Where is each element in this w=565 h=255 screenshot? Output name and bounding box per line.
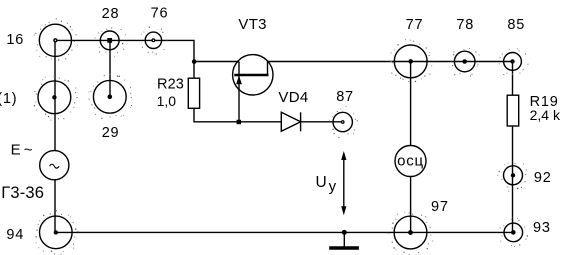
svg-text:77: 77 <box>406 17 424 33</box>
wire R19 through 92 to 93 <box>512 126 514 232</box>
resistor R19 <box>507 95 519 126</box>
svg-text:94: 94 <box>6 227 24 243</box>
wire top row from terminal 16 through 28 and 76 to corner <box>55 40 194 78</box>
svg-text:29: 29 <box>102 125 120 141</box>
terminal 78 <box>451 48 479 77</box>
wire 77 down to oscilloscope <box>410 62 412 146</box>
wire R23 bottom to bottom-left rail <box>194 108 282 122</box>
svg-text:(1): (1) <box>0 91 17 107</box>
svg-text:92: 92 <box>534 170 552 186</box>
svg-text:87: 87 <box>336 89 354 105</box>
svg-text:85: 85 <box>507 17 525 33</box>
svg-text:VT3: VT3 <box>238 16 266 33</box>
wire VT3 source vertical down to bottom-left rail <box>238 62 240 122</box>
terminal 92 <box>497 163 526 192</box>
terminal 97 <box>388 212 433 255</box>
transistor VT3 <box>233 55 273 95</box>
ground <box>329 232 359 248</box>
svg-text:76: 76 <box>151 6 169 22</box>
terminal 29 <box>89 74 132 119</box>
node B junction square at VT3 source and bottom rail <box>237 120 241 124</box>
svg-text:~: ~ <box>24 141 34 158</box>
svg-text:2,4 k: 2,4 k <box>530 107 561 123</box>
terminal 87 <box>329 106 358 138</box>
oscilloscope <box>395 146 426 177</box>
wire VT3 drain to top right rail through 77 78 to 85 <box>268 62 513 76</box>
svg-text:Г3-36: Г3-36 <box>1 184 44 202</box>
svg-text:VD4: VD4 <box>278 89 308 106</box>
node A junction dot <box>192 59 197 64</box>
wire gate branch from node A to VT3 <box>194 61 239 63</box>
terminal 76 <box>141 27 168 55</box>
resistor R23 <box>188 78 199 108</box>
wire left vertical 16 to generator <box>54 40 56 150</box>
terminal 94 <box>36 210 79 255</box>
wire bottom rail 94 to ground to 97 to 93 <box>55 231 513 233</box>
node ground junction dot <box>342 230 347 235</box>
terminal 16 <box>34 18 78 60</box>
wire 85 down to R19 <box>512 62 514 96</box>
svg-text:93: 93 <box>533 220 551 236</box>
generator E~ <box>40 151 69 180</box>
svg-text:1,0: 1,0 <box>157 93 177 109</box>
terminal 28 <box>95 28 126 58</box>
wire oscilloscope down to 97 <box>410 176 412 232</box>
svg-text:16: 16 <box>6 32 24 48</box>
svg-text:E: E <box>11 141 22 158</box>
terminal 93 <box>500 218 528 247</box>
svg-text:осц: осц <box>397 153 424 170</box>
terminal 85 <box>499 48 529 75</box>
svg-text:28: 28 <box>102 6 120 22</box>
svg-text:U: U <box>316 174 328 191</box>
arrow Uy <box>341 151 346 215</box>
terminal (1) <box>34 76 78 121</box>
svg-text:97: 97 <box>431 199 449 215</box>
svg-text:R23: R23 <box>157 77 184 93</box>
wire diode cathode to terminal 87 <box>301 121 343 123</box>
wire 28 to 29 <box>109 40 111 96</box>
svg-text:78: 78 <box>456 17 474 33</box>
svg-text:y: y <box>329 178 337 195</box>
wire generator to terminal 94 <box>54 180 56 233</box>
terminal 77 <box>390 39 434 82</box>
diode VD4 <box>281 112 300 131</box>
